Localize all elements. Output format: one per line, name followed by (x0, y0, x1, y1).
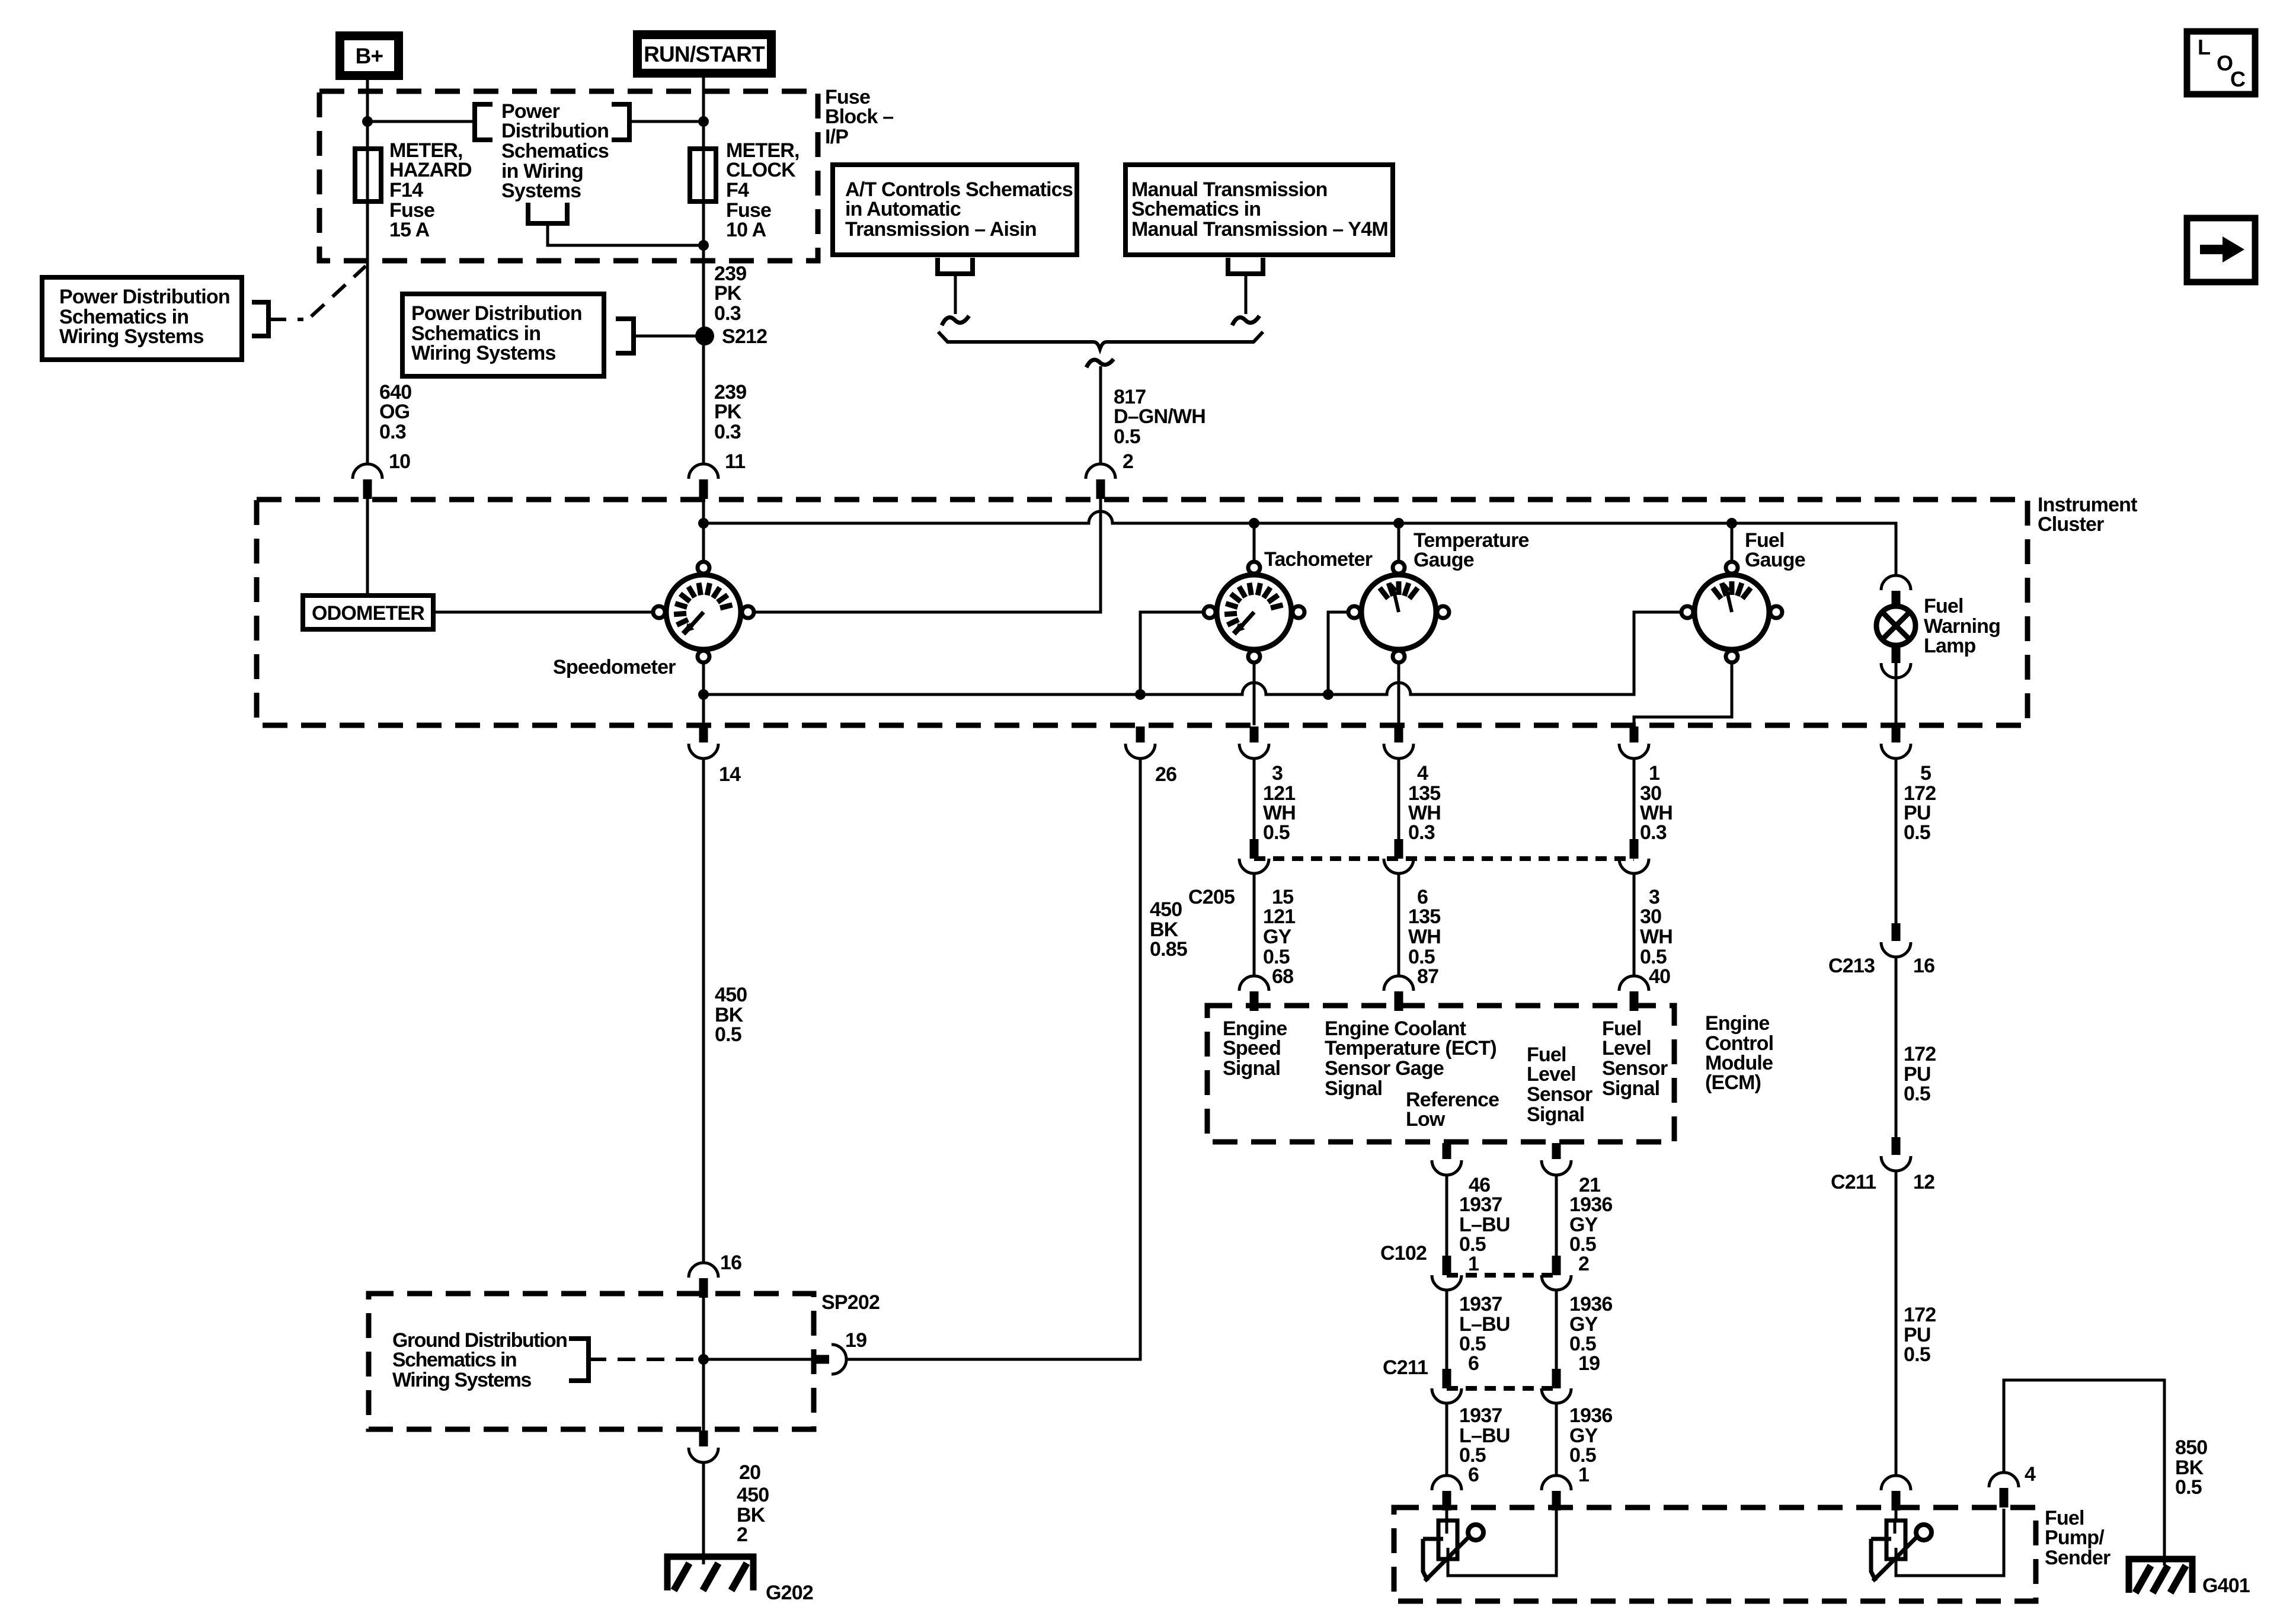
svg-text:Schematics in: Schematics in (392, 1349, 516, 1371)
wire 10 to odometer (366, 498, 369, 596)
wire through SP202 (702, 1297, 705, 1430)
svg-text:Cluster: Cluster (2038, 513, 2104, 536)
wire tachometer left to bus (1140, 612, 1204, 694)
svg-text:172: 172 (1904, 1043, 1936, 1065)
svg-text:5: 5 (1920, 762, 1931, 785)
connector C102 dotted line (1447, 1273, 1556, 1278)
svg-text:Engine: Engine (1705, 1012, 1770, 1035)
connector 16 into SP202 (689, 1263, 718, 1298)
wire right sender bottom loop (1896, 1509, 2004, 1576)
svg-text:11: 11 (725, 450, 745, 473)
instrument cluster dashed box (257, 500, 2028, 725)
wire temp top (1398, 523, 1400, 561)
connector fuel pump sender wire (1881, 1475, 1911, 1510)
connector C211 left half (1432, 1369, 1462, 1403)
wire 1936 (C211-pump) (1555, 1403, 1558, 1475)
component ODOMETER box (303, 596, 433, 629)
svg-text:in Automatic: in Automatic (845, 198, 961, 220)
fuel pump/sender dashed box (1394, 1507, 2036, 1601)
node bus junction at tachometer (1249, 518, 1259, 529)
svg-text:CLOCK: CLOCK (726, 159, 796, 181)
connector Fuel Level Sensor Signal (ECM bottom) (1542, 1143, 1571, 1175)
svg-text:0.5: 0.5 (1904, 1083, 1930, 1105)
wire right sender interior (1894, 1521, 1897, 1534)
svg-text:0.3: 0.3 (1408, 821, 1435, 844)
svg-text:OG: OG (379, 401, 410, 423)
wire into right sender (1895, 1507, 1898, 1521)
ground G401 (2129, 1559, 2192, 1593)
svg-text:Sensor: Sensor (1527, 1083, 1593, 1106)
wire lower bus with hops (703, 612, 1681, 694)
svg-text:PK: PK (714, 282, 742, 305)
svg-text:0.3: 0.3 (379, 421, 406, 443)
svg-text:Sensor: Sensor (1602, 1057, 1668, 1080)
svg-text:Level: Level (1527, 1063, 1576, 1086)
merge brace joining transmission wires (938, 332, 1263, 349)
wire 4 to C205 (1398, 759, 1400, 839)
svg-text:Gauge: Gauge (1414, 549, 1474, 571)
wire fuel pump 4 loop to ground (2004, 1380, 2164, 1566)
svg-text:40: 40 (1649, 965, 1670, 988)
bracket right of middle note box (616, 319, 634, 353)
svg-text:C211: C211 (1383, 1356, 1428, 1379)
svg-text:B+: B+ (356, 44, 383, 68)
wire 46 down (1446, 1176, 1448, 1257)
wire 11 to speedometer top (702, 498, 705, 561)
svg-text:12: 12 (1913, 1171, 1934, 1193)
off-page squiggle (Manual) (1232, 316, 1259, 325)
connector pin 68 (ECM) (1239, 976, 1269, 1011)
svg-text:I/P: I/P (825, 126, 848, 148)
lamp fuel warning (top connector) (1881, 575, 1911, 609)
svg-text:Distribution: Distribution (501, 120, 609, 142)
terminal box B+ (340, 36, 399, 76)
wire B+ down (366, 76, 369, 464)
svg-text:0.3: 0.3 (1640, 821, 1667, 844)
svg-text:1: 1 (1578, 1464, 1589, 1486)
svg-text:1937: 1937 (1459, 1293, 1502, 1315)
connector pin 2 (cluster) (1086, 464, 1115, 499)
connector pin 4 (1384, 726, 1414, 758)
connector pin 3 (1239, 726, 1269, 758)
svg-text:4: 4 (2025, 1463, 2036, 1486)
svg-text:G401: G401 (2202, 1574, 2250, 1597)
ECM dashed box (1207, 1006, 1674, 1142)
terminal box RUN/START (638, 35, 772, 73)
svg-text:C205: C205 (1188, 886, 1235, 908)
wire note-bracket stem (548, 223, 703, 245)
svg-text:19: 19 (845, 1329, 866, 1352)
svg-text:0.5: 0.5 (1114, 425, 1140, 448)
svg-text:Systems: Systems (501, 180, 581, 202)
wire 68 to ECM (1253, 873, 1256, 976)
wire tachometer bottom through bus (1253, 662, 1256, 725)
svg-text:Power Distribution: Power Distribution (411, 302, 582, 325)
wire left sender interior (1446, 1521, 1448, 1534)
svg-text:14: 14 (719, 763, 741, 786)
svg-text:G202: G202 (766, 1582, 813, 1604)
lamp fuel warning bulb (1876, 606, 1916, 645)
node junction on RUN/START wire (698, 116, 709, 127)
svg-text:Gauge: Gauge (1745, 549, 1805, 571)
svg-text:850: 850 (2175, 1436, 2207, 1459)
bracket right of ground note (569, 1339, 589, 1381)
connector C211 (right) (1881, 1137, 1911, 1171)
svg-text:Fuel: Fuel (1924, 595, 1964, 617)
wire 450 BK 0.5 (speedometer ground) (702, 759, 705, 1263)
connector C102 left half (1432, 1256, 1462, 1290)
svg-text:1937: 1937 (1459, 1404, 1502, 1427)
reference box Manual Transmission Schematics (1125, 165, 1393, 255)
wire odometer to speedometer (433, 611, 653, 614)
bracket under A/T box (938, 258, 973, 274)
splice S212 (695, 327, 714, 345)
svg-text:0.5: 0.5 (1904, 821, 1930, 844)
wire 19 to pin 26 column (846, 759, 1140, 1359)
wire A/T stem (954, 274, 957, 314)
reference box A/T Controls Schematics (833, 165, 1077, 255)
svg-text:10: 10 (389, 450, 410, 473)
svg-text:135: 135 (1408, 905, 1440, 928)
svg-text:68: 68 (1272, 965, 1293, 988)
svg-text:C211: C211 (1831, 1171, 1876, 1193)
node lower bus junction temp (1323, 689, 1334, 700)
gauge tachometer (1204, 562, 1304, 662)
svg-text:S212: S212 (722, 325, 767, 348)
connector pin 4 (fuel pump) (1989, 1473, 2019, 1507)
svg-text:0.5: 0.5 (1904, 1343, 1930, 1366)
node bus junction at temperature gauge (1393, 518, 1404, 529)
connector pin 10 (cluster) (353, 464, 382, 499)
wire 21 down (1555, 1176, 1558, 1257)
svg-text:Low: Low (1406, 1108, 1446, 1131)
fuel pump sender (right) (1871, 1521, 1932, 1581)
wire fuel top (1731, 523, 1734, 561)
svg-text:ODOMETER: ODOMETER (312, 602, 424, 625)
svg-text:GY: GY (1263, 926, 1292, 948)
icon arrow box (2187, 218, 2255, 282)
gauge fuel (1681, 562, 1782, 662)
wire tachometer top (1253, 523, 1256, 561)
svg-text:0.5: 0.5 (2175, 1476, 2202, 1499)
wire temp bottom through bus (1398, 662, 1400, 725)
node splice junction SP202 (698, 1354, 709, 1365)
svg-text:D–GN/WH: D–GN/WH (1114, 405, 1205, 428)
connector C211 dotted line (1447, 1386, 1556, 1391)
svg-text:0.3: 0.3 (714, 302, 741, 325)
node junction lower fuse-block (698, 240, 709, 251)
svg-text:0.5: 0.5 (1263, 821, 1290, 844)
svg-text:F14: F14 (389, 179, 423, 201)
svg-text:Wiring Systems: Wiring Systems (392, 1369, 531, 1391)
wire dashed note to splice (589, 1358, 696, 1361)
wire 1937 (C102-C211) (1446, 1290, 1448, 1371)
bracket under Manual box (1228, 258, 1263, 274)
gauge speedometer (653, 562, 754, 662)
svg-text:Transmission – Aisin: Transmission – Aisin (845, 218, 1037, 241)
svg-text:Signal: Signal (1602, 1077, 1659, 1100)
svg-text:Sender: Sender (2045, 1547, 2110, 1569)
connector C205 at temp wire (1384, 839, 1414, 873)
svg-text:Power Distribution: Power Distribution (59, 286, 230, 308)
svg-text:Schematics in: Schematics in (1131, 198, 1261, 220)
svg-text:C102: C102 (1380, 1242, 1427, 1265)
wire junction to bracket (367, 120, 475, 123)
svg-text:Sensor Gage: Sensor Gage (1325, 1057, 1444, 1080)
svg-text:0.85: 0.85 (1150, 938, 1187, 961)
connector C213 (1881, 923, 1911, 957)
svg-text:F4: F4 (726, 179, 749, 201)
svg-text:Speedometer: Speedometer (553, 656, 676, 678)
wire into left sender (1446, 1507, 1448, 1521)
svg-text:PK: PK (714, 401, 742, 423)
svg-text:L: L (2198, 35, 2210, 59)
svg-text:Speed: Speed (1223, 1037, 1281, 1060)
svg-text:WH: WH (1408, 926, 1441, 948)
connector Reference Low (ECM bottom) (1432, 1143, 1462, 1175)
wire 1 to C205 (1633, 759, 1636, 839)
svg-text:C: C (2230, 67, 2246, 91)
svg-text:Lamp: Lamp (1924, 635, 1976, 657)
svg-text:Wiring Systems: Wiring Systems (59, 325, 204, 348)
svg-text:2: 2 (1123, 450, 1133, 473)
connector pin 5 (1881, 726, 1911, 758)
connector pin 87 (ECM) (1384, 976, 1414, 1011)
svg-text:19: 19 (1578, 1352, 1600, 1375)
svg-text:C213: C213 (1828, 955, 1875, 977)
off-page squiggle (817 wire top) (1086, 359, 1114, 367)
svg-text:WH: WH (1640, 926, 1673, 948)
connector pin 40 (ECM) (1619, 976, 1649, 1011)
svg-text:Signal: Signal (1527, 1103, 1584, 1126)
fuse block I/P dashed box (319, 91, 818, 261)
svg-text:450: 450 (715, 984, 747, 1006)
node lower bus junction at speedometer (698, 689, 709, 700)
svg-text:121: 121 (1263, 905, 1295, 928)
wire fuel bottom to connector 1 (1634, 662, 1732, 725)
connector pin 26 (1125, 726, 1155, 758)
svg-text:10 A: 10 A (726, 219, 766, 241)
svg-text:15 A: 15 A (389, 219, 430, 241)
svg-text:SP202: SP202 (821, 1291, 880, 1314)
connector C205 at tach wire (1239, 839, 1269, 873)
connector C102 right half (1542, 1256, 1571, 1290)
wire 172 PU (C211-pump) (1895, 1171, 1898, 1475)
svg-text:4: 4 (1417, 762, 1428, 785)
svg-text:2: 2 (1578, 1253, 1589, 1275)
wire 5 down (1895, 759, 1898, 924)
svg-text:3: 3 (1272, 762, 1283, 785)
svg-text:26: 26 (1155, 763, 1176, 786)
bracket left of Power Distribution note (475, 104, 493, 140)
off-page squiggle (A/T) (942, 316, 969, 325)
svg-text:87: 87 (1417, 965, 1438, 988)
svg-text:Wiring Systems: Wiring Systems (411, 342, 556, 364)
wire 1937 (C211-pump) (1446, 1403, 1448, 1475)
node lower bus junction 26 (1135, 689, 1146, 700)
svg-text:Pump/: Pump/ (2045, 1526, 2105, 1549)
fuse F4 METER, CLOCK (690, 149, 716, 201)
wire bracket to RUN/START column (629, 120, 703, 123)
svg-text:30: 30 (1640, 905, 1661, 928)
fuel level sender (left) (1423, 1521, 1483, 1581)
ground G202 (667, 1557, 753, 1590)
wire Manual stem (1245, 274, 1248, 314)
wire 817 down to cluster (1099, 366, 1102, 464)
svg-text:2: 2 (737, 1523, 747, 1546)
connector fuel pump right wire (1542, 1475, 1571, 1510)
svg-text:Manual Transmission – Y4M: Manual Transmission – Y4M (1131, 218, 1388, 241)
fuse F14 METER, HAZARD (355, 149, 381, 201)
wire 87 to ECM (1398, 873, 1400, 976)
svg-text:20: 20 (739, 1461, 760, 1484)
bracket under Systems note (528, 203, 567, 223)
wire left sender bottom loop (1448, 1509, 1556, 1576)
svg-text:Temperature (ECT): Temperature (ECT) (1325, 1037, 1496, 1060)
node junction on B+ wire (362, 116, 373, 127)
note box Power Distribution Schematics (middle) (402, 294, 604, 376)
connector pin 20 (SP202 bottom) (689, 1430, 718, 1462)
connector pin 19 (SP202 side) (813, 1345, 846, 1374)
connector pin 11 (cluster) (689, 464, 718, 499)
wire 20 to ground (702, 1463, 705, 1564)
svg-text:Signal: Signal (1325, 1077, 1382, 1100)
svg-text:RUN/START: RUN/START (644, 42, 765, 66)
svg-text:Signal: Signal (1223, 1057, 1280, 1080)
connector pin 14 (689, 726, 718, 758)
wire speedometer bottom (702, 662, 705, 725)
svg-text:1936: 1936 (1569, 1193, 1612, 1216)
svg-text:450: 450 (1150, 898, 1182, 921)
svg-text:450: 450 (737, 1484, 769, 1506)
wire lamp down (1895, 663, 1898, 725)
wire temp left to bus (1328, 612, 1348, 694)
wire splice to connector 19 (703, 1358, 813, 1361)
wire top bus with hop over 817 wire (703, 511, 1896, 576)
svg-text:172: 172 (1904, 1304, 1936, 1326)
svg-text:16: 16 (1913, 955, 1934, 977)
node bus junction at speedometer (698, 518, 709, 529)
bracket right of Power Distribution note (612, 104, 629, 140)
connector C205 at fuel wire (1619, 839, 1649, 873)
svg-text:Tachometer: Tachometer (1264, 548, 1373, 571)
svg-text:6: 6 (1468, 1464, 1479, 1486)
svg-text:Level: Level (1602, 1037, 1651, 1060)
svg-text:1936: 1936 (1569, 1404, 1612, 1427)
svg-text:0.5: 0.5 (715, 1023, 741, 1046)
wire middle note to S212 (634, 335, 705, 338)
svg-text:Block –: Block – (825, 105, 893, 128)
connector fuel pump left wire (1432, 1475, 1462, 1510)
svg-text:Schematics: Schematics (501, 140, 609, 162)
wire 817 into cluster to speedometer right (754, 498, 1101, 612)
svg-text:16: 16 (720, 1251, 741, 1274)
bracket right of left note box (252, 302, 268, 336)
svg-text:1: 1 (1649, 762, 1659, 785)
wire 40 to ECM (1633, 873, 1636, 976)
gauge temperature (1348, 562, 1449, 662)
svg-text:6: 6 (1468, 1352, 1479, 1375)
wire 3 to C205 (1253, 759, 1256, 839)
svg-text:1: 1 (1468, 1253, 1479, 1275)
note box Power Distribution Schematics (left) (42, 277, 242, 360)
node bus junction at fuel gauge (1726, 518, 1737, 529)
wire fuel left (1634, 611, 1681, 614)
svg-text:1936: 1936 (1569, 1293, 1612, 1315)
svg-text:(ECM): (ECM) (1705, 1071, 1761, 1094)
splice pack SP202 dashed box (369, 1294, 814, 1429)
svg-text:0.3: 0.3 (714, 421, 741, 443)
svg-text:HAZARD: HAZARD (389, 159, 472, 181)
connector C211 right half (1542, 1369, 1571, 1403)
wire dashed to fuse block (alternate feed) (268, 266, 366, 319)
svg-text:1937: 1937 (1459, 1193, 1502, 1216)
lamp fuel warning (bottom connector) (1881, 645, 1911, 678)
connector C205 dotted line (1254, 856, 1634, 861)
wire 1936 (C102-C211) (1555, 1290, 1558, 1371)
wire 172 PU (C213-C211) (1895, 957, 1898, 1138)
icon LOC box (2187, 31, 2255, 94)
connector pin 1 (1619, 726, 1649, 758)
wire RUN/START down (702, 73, 705, 464)
